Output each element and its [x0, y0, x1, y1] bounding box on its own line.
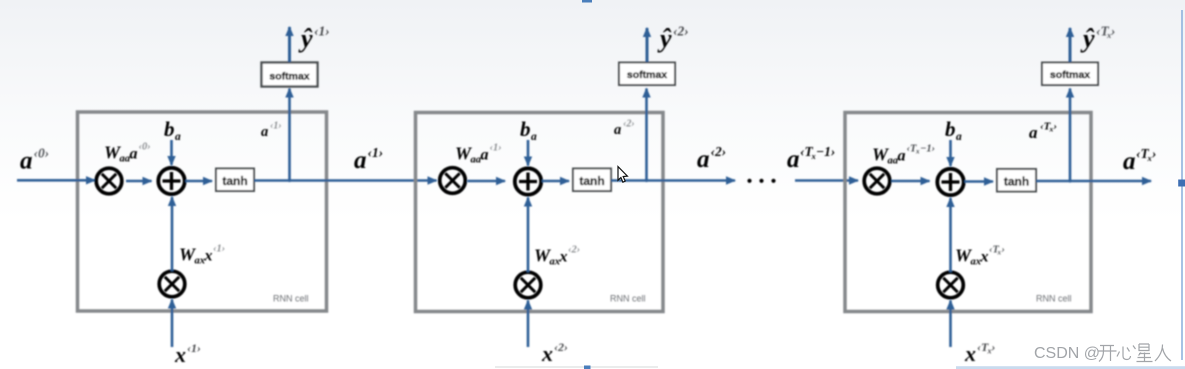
svg-text:x: x — [174, 342, 186, 367]
svg-text:‹2›: ‹2› — [554, 340, 568, 354]
label a(2) small inside cell 2 — [614, 119, 635, 139]
svg-text:a: a — [697, 146, 710, 173]
wire x(1) input up into multiply cell 1 — [171, 300, 174, 348]
svg-text:aa: aa — [888, 156, 899, 167]
tanh box cell 2 — [573, 169, 611, 192]
wire softmax to y-hat cell 2 — [646, 28, 649, 62]
svg-text:x: x — [204, 248, 213, 265]
multiply node cell 3 (Waa) — [864, 168, 890, 194]
multiply node x-input cell 1 — [159, 271, 185, 297]
svg-text:softmax: softmax — [627, 69, 667, 81]
svg-text:x: x — [964, 341, 976, 366]
svg-text:RNN cell: RNN cell — [1036, 294, 1072, 304]
wire softmax to y-hat cell 1 — [288, 27, 291, 62]
wire x(2) input up into multiply cell 2 — [527, 301, 530, 348]
svg-text:RNN cell: RNN cell — [610, 294, 646, 304]
svg-text:softmax: softmax — [1050, 69, 1090, 81]
junction dot cell 1 — [288, 179, 291, 182]
svg-text:tanh: tanh — [1004, 175, 1029, 189]
label x(1) — [174, 341, 201, 367]
wire up from junction to softmax cell 1 — [288, 89, 291, 181]
svg-text:‹1›: ‹1› — [213, 244, 225, 255]
svg-text:a: a — [898, 148, 906, 165]
wire x-multiply up into add node cell 3 — [949, 198, 952, 272]
svg-text:b: b — [520, 117, 531, 141]
wire b_a into add node cell 1 — [170, 140, 173, 165]
wire x-multiply up into add node cell 1 — [171, 197, 174, 271]
wire multiply to add cell 2 — [468, 180, 506, 183]
softmax box cell 2 — [619, 63, 675, 86]
svg-text:aa: aa — [471, 155, 482, 166]
svg-text:a: a — [1029, 123, 1038, 142]
label y-hat(1) — [298, 24, 330, 54]
label a(1) small inside cell 1 — [261, 121, 282, 141]
char xing — [1137, 344, 1153, 362]
label b_a cell 3 — [945, 117, 962, 143]
svg-text:tanh: tanh — [579, 174, 604, 188]
wire a(Tx-1) into cell 3 — [795, 179, 858, 182]
svg-text:‹2›: ‹2› — [568, 245, 580, 256]
wire up from junction to softmax cell 2 — [645, 89, 648, 181]
add node cell 2 — [515, 168, 541, 194]
add node cell 1 — [158, 168, 184, 194]
RNN cell 2 box — [416, 113, 664, 312]
label Wax x(1) — [179, 244, 225, 267]
wire add to tanh cell 2 — [542, 180, 569, 183]
svg-text:b: b — [945, 117, 956, 141]
svg-text:‹0›: ‹0› — [139, 142, 151, 153]
svg-text:‹2›: ‹2› — [623, 119, 635, 130]
svg-text:a: a — [175, 131, 181, 143]
svg-text:›: › — [1054, 121, 1058, 133]
wire multiply to add cell 3 — [892, 180, 930, 183]
svg-text:a: a — [130, 146, 138, 163]
label Waa a(0) — [104, 142, 151, 165]
wire softmax to y-hat cell 3 — [1069, 28, 1072, 62]
char ren — [1155, 345, 1171, 362]
label a(Tx-1) — [787, 144, 835, 173]
svg-text:a: a — [531, 131, 537, 143]
RNN cell 3 box — [845, 113, 1091, 312]
softmax box cell 1 — [262, 63, 318, 87]
svg-text:‹1›: ‹1› — [490, 143, 502, 154]
label b_a cell 2 — [520, 117, 537, 143]
svg-text:ŷ: ŷ — [298, 24, 313, 53]
softmax box cell 3 — [1042, 63, 1098, 86]
label Wax x(Tx) — [955, 245, 1005, 268]
svg-text:ax: ax — [550, 257, 561, 268]
label Wax x(2) — [534, 245, 580, 268]
svg-text:x: x — [559, 249, 568, 266]
svg-text:›: › — [1002, 245, 1006, 256]
wire up from junction to softmax cell 3 — [1069, 89, 1072, 182]
RNN cell 1 box — [78, 112, 327, 311]
add node cell 3 — [937, 169, 963, 195]
wire tanh output across to cell 3 output — [1036, 180, 1151, 183]
svg-text:a: a — [354, 147, 367, 174]
svg-text:a: a — [614, 122, 621, 138]
svg-text:›: › — [1111, 24, 1116, 39]
svg-text:a: a — [481, 147, 489, 164]
wire tanh output across to cell 2 multiply — [254, 179, 437, 182]
svg-text:ŷ: ŷ — [657, 24, 672, 53]
svg-text:ŷ: ŷ — [1080, 24, 1095, 53]
svg-text:‹0›: ‹0› — [34, 146, 50, 161]
svg-text:−1›: −1› — [816, 144, 835, 159]
label b_a cell 1 — [164, 117, 181, 143]
svg-text:−1›: −1› — [920, 144, 935, 155]
svg-text:tanh: tanh — [222, 174, 247, 188]
label x(2) — [541, 340, 568, 366]
bottom blue square — [584, 366, 591, 369]
svg-text:a: a — [1123, 148, 1136, 175]
wire x(Tx) input up into multiply cell 3 — [949, 301, 952, 348]
wire x-multiply up into add node cell 2 — [527, 198, 530, 273]
svg-text:ax: ax — [971, 257, 982, 268]
junction dot cell 2 — [645, 179, 648, 182]
svg-text:softmax: softmax — [269, 71, 309, 83]
watermark chinese characters (drawn) — [1098, 344, 1172, 362]
label y-hat(Tx) — [1080, 24, 1116, 54]
svg-text:‹1›: ‹1› — [187, 341, 201, 355]
label a(Tx) small inside cell 3 — [1029, 121, 1057, 143]
ellipsis dots between cell 2 and cell 3 — [747, 179, 775, 183]
svg-text:›: › — [992, 340, 996, 354]
selection edge line right — [1181, 10, 1183, 360]
svg-text:aa: aa — [120, 154, 131, 165]
label Waa a(Tx-1) cell 3 — [872, 144, 935, 167]
label a(Tx) after cell 3 — [1123, 146, 1157, 175]
label x(Tx) — [964, 340, 996, 366]
selection handle square right — [1178, 180, 1185, 187]
char kai — [1098, 346, 1117, 362]
mouse cursor — [618, 167, 627, 183]
svg-text:‹1›: ‹1› — [368, 145, 384, 160]
svg-text:x: x — [980, 249, 989, 266]
junction dot cell 3 — [1068, 179, 1071, 182]
label a(1) between cells — [354, 145, 383, 174]
svg-text:a: a — [261, 124, 268, 140]
wire add to tanh cell 3 — [965, 180, 994, 183]
tanh box cell 3 — [997, 169, 1036, 192]
svg-text:ax: ax — [195, 256, 206, 267]
svg-text:a: a — [787, 146, 800, 173]
svg-text:‹1›: ‹1› — [314, 24, 330, 39]
svg-text:›: › — [1152, 146, 1157, 161]
label a(0) — [20, 146, 49, 175]
svg-text:b: b — [164, 117, 175, 141]
svg-text:a: a — [20, 148, 33, 175]
label a(2) after cell 2 — [697, 144, 726, 173]
multiply node x-input cell 2 — [515, 272, 541, 298]
svg-text:‹2›: ‹2› — [711, 144, 727, 159]
multiply node cell 2 (Waa) — [440, 168, 466, 194]
wire b_a into add node cell 3 — [949, 140, 952, 166]
bottom right light blue strip — [956, 366, 1185, 369]
svg-text:CSDN @: CSDN @ — [1034, 345, 1100, 362]
wire a(0) input into cell 1 — [17, 179, 95, 182]
bottom faint line — [495, 366, 658, 367]
svg-text:x: x — [541, 341, 553, 366]
wire tanh output across to cell 2 output — [611, 179, 735, 182]
top blue dash — [582, 0, 592, 3]
char xin — [1117, 346, 1136, 360]
wire multiply to add cell 1 — [126, 180, 152, 183]
svg-text:‹1›: ‹1› — [270, 121, 282, 132]
label Waa a(1) cell 2 — [455, 143, 502, 166]
tanh box cell 1 — [216, 169, 254, 192]
svg-text:‹2›: ‹2› — [673, 24, 689, 39]
wire add to tanh cell 1 — [186, 180, 213, 183]
svg-text:a: a — [956, 131, 962, 143]
label y-hat(2) — [657, 24, 689, 54]
svg-text:RNN cell: RNN cell — [273, 294, 309, 304]
multiply node x-input cell 3 — [938, 272, 964, 298]
wire b_a into add node cell 2 — [527, 140, 530, 166]
multiply node cell 1 (Waa) — [96, 168, 122, 194]
